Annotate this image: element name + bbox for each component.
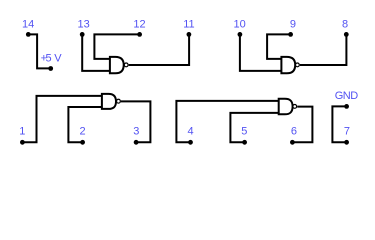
pin 11 dot [187, 32, 192, 37]
NAND gate U1A output bubble [124, 63, 128, 67]
svg-text:11: 11 [183, 18, 194, 30]
wire pin 12 to gate U1A upper input [94, 34, 139, 59]
wire pin 2 to gate U1C lower input [68, 107, 102, 142]
svg-text:12: 12 [133, 18, 145, 30]
wire pin 4 to gate U1D upper input [176, 101, 278, 142]
NAND gate U1D output bubble [293, 105, 297, 109]
NAND gate U1C body [102, 94, 116, 109]
wire pin 13 to gate U1A lower input [82, 34, 110, 71]
svg-text:13: 13 [77, 18, 89, 30]
pin 7 dot [344, 140, 349, 145]
NAND gate U1B body [281, 57, 295, 73]
pin 3 dot [134, 140, 139, 145]
wire pin 10 to gate U1B lower input [240, 34, 282, 71]
wire GND node to pin 7 [332, 106, 346, 142]
wire pin 9 to gate U1B upper input [267, 34, 291, 59]
pin 14 dot [26, 32, 31, 37]
wire pin 1 to gate U1C upper input [22, 96, 102, 142]
NAND gate U1C output bubble [117, 99, 121, 103]
pin 6 dot [290, 140, 295, 145]
svg-text:1: 1 [19, 126, 25, 138]
pin 2 dot [80, 140, 85, 145]
pin 10 dot [238, 32, 243, 37]
wire gate U1B output to pin 8 [300, 34, 347, 65]
wire pin 5 to gate U1D lower input [230, 113, 278, 142]
pin 13 dot [80, 32, 85, 37]
pin 1 dot [20, 140, 25, 145]
svg-text:+5: +5 [41, 52, 52, 64]
svg-text:5: 5 [241, 126, 247, 138]
svg-text:6: 6 [291, 126, 297, 138]
NAND gate U1B output bubble [296, 63, 300, 67]
svg-text:V: V [54, 52, 62, 64]
NAND gate U1D body [279, 99, 293, 115]
pin 12 dot [137, 32, 142, 37]
svg-text:10: 10 [233, 18, 245, 30]
svg-text:4: 4 [187, 126, 193, 138]
svg-text:GND: GND [335, 90, 359, 102]
wire pin 14 to +5V node [28, 34, 50, 68]
svg-text:8: 8 [342, 18, 348, 30]
pin 4 dot [188, 140, 193, 145]
svg-text:14: 14 [22, 18, 34, 30]
svg-text:7: 7 [344, 126, 350, 138]
pin 8 dot [344, 32, 349, 37]
pin 5 dot [242, 140, 247, 145]
wire gate U1D output to pin 6 [292, 107, 312, 143]
svg-text:9: 9 [290, 18, 296, 30]
svg-text:3: 3 [133, 126, 139, 138]
wire gate U1C output to pin 3 [121, 101, 150, 142]
NAND gate U1A body [110, 57, 124, 73]
GND node dot [344, 104, 349, 109]
wire gate U1A output to pin 11 [129, 34, 189, 65]
+5V node dot [48, 66, 53, 71]
pin 9 dot [288, 32, 293, 37]
svg-text:2: 2 [80, 126, 86, 138]
